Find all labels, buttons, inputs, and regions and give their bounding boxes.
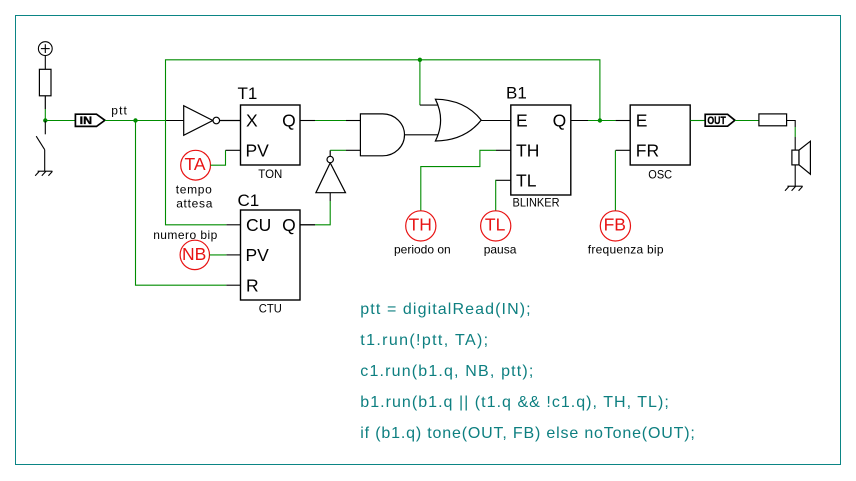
resistor R1 (pull-up) [39, 69, 51, 109]
wire NB to C1 PV [210, 254, 227, 256]
svg-text:FB: FB [604, 215, 626, 235]
wire ptt down to C1 R input [136, 121, 227, 286]
parameter TH [406, 211, 436, 241]
svg-text:numero bip: numero bip [153, 228, 218, 242]
speaker LS1 [792, 141, 811, 174]
svg-text:Q: Q [282, 215, 296, 235]
timer block T1 TON [226, 84, 316, 181]
wire AND output to OR input [404, 134, 443, 136]
svg-text:pausa: pausa [484, 243, 517, 257]
pin Q stub [300, 224, 315, 226]
svg-text:TH: TH [516, 140, 539, 160]
oscillator block OSC [616, 105, 691, 181]
node junction on top rail [418, 58, 422, 62]
node junction b1.q [598, 118, 602, 122]
pin Q stub [571, 120, 588, 122]
wire ptt: IN tunnel to inverter [105, 120, 166, 122]
ground (right, under speaker) [785, 186, 803, 191]
ground (left) [35, 171, 52, 176]
svg-text:TON: TON [258, 169, 282, 181]
svg-text:ptt: ptt [111, 104, 128, 118]
svg-text:c1.run(b1.q, NB, ptt);: c1.run(b1.q, NB, ptt); [360, 363, 533, 380]
svg-text:ptt = digitalRead(IN);: ptt = digitalRead(IN); [360, 301, 530, 318]
svg-text:PV: PV [246, 245, 270, 265]
svg-text:periodo on: periodo on [394, 243, 451, 257]
svg-text:CTU: CTU [259, 304, 282, 316]
pin FR stub [616, 149, 631, 151]
svg-text:if (b1.q) tone(OUT, FB) else n: if (b1.q) tone(OUT, FB) else noTone(OUT)… [360, 425, 695, 442]
svg-text:CU: CU [246, 215, 271, 235]
svg-text:TH: TH [409, 215, 432, 235]
parameter FB [600, 211, 630, 241]
pin Q stub [300, 120, 315, 122]
svg-text:B1: B1 [506, 84, 527, 103]
wire junction to IN tunnel [45, 120, 75, 122]
wire resistor to node ptt [44, 109, 46, 121]
wire TL param to B1.TL [495, 180, 497, 211]
wire B1.Q to OSC.E [588, 120, 616, 122]
svg-text:Q: Q [553, 111, 567, 131]
svg-text:TA: TA [184, 154, 205, 174]
svg-text:OUT: OUT [707, 115, 726, 127]
svg-text:TL: TL [485, 215, 506, 235]
parameter NB [180, 240, 209, 269]
resistor R2 (series to speaker) [759, 114, 787, 126]
wire OUT tunnel to resistor R2 [735, 120, 759, 122]
svg-text:E: E [516, 111, 528, 131]
svg-text:Q: Q [282, 111, 296, 131]
svg-text:OSC: OSC [648, 169, 672, 181]
pin TH stub [496, 149, 511, 151]
wire T1.Q to AND input [315, 120, 346, 122]
pin TL stub [496, 179, 511, 181]
input tunnel IN [75, 114, 105, 127]
svg-text:b1.run(b1.q || (t1.q && !c1.q): b1.run(b1.q || (t1.q && !c1.q), TH, TL); [360, 394, 669, 411]
wire rail to OR gate input [419, 60, 421, 105]
OR gate U4 [435, 99, 481, 141]
inverter U2 (NOT gate on c1.q, pointing up) [316, 150, 346, 192]
svg-text:frequenza bip: frequenza bip [588, 243, 664, 257]
svg-text:PV: PV [246, 140, 270, 160]
svg-text:TL: TL [516, 170, 537, 190]
wire OR output to B1.E [481, 120, 511, 122]
node junction at switch/resistor [43, 118, 47, 122]
pin CU stub [226, 224, 240, 226]
svg-text:T1: T1 [238, 84, 258, 103]
svg-text:tempo: tempo [176, 183, 213, 197]
pin PV stub [226, 149, 241, 151]
wire OSC out to OUT tunnel [690, 120, 705, 122]
svg-text:BLINKER: BLINKER [513, 198, 560, 210]
svg-text:NB: NB [182, 244, 206, 264]
wire C1.Q to inverter U2 [300, 224, 315, 226]
wire TA to T1 PV [211, 150, 226, 165]
parameter TL [481, 211, 511, 241]
svg-text:attesa: attesa [176, 197, 213, 211]
output tunnel OUT [705, 114, 735, 127]
switch S1 (push-to-talk) [36, 121, 45, 172]
pin PV stub [226, 254, 240, 256]
wire b1.q feedback rail [166, 60, 600, 225]
inverter U1 (NOT gate on ptt) [184, 106, 241, 136]
wire U2 out to AND input [330, 149, 346, 151]
svg-text:IN: IN [80, 115, 92, 127]
wire speaker to ground [794, 165, 796, 186]
svg-text:E: E [636, 111, 648, 131]
counter block C1 CTU [226, 191, 315, 316]
wire TH param to B1.TH [421, 150, 496, 211]
svg-text:C1: C1 [238, 191, 260, 210]
wire FB param to OSC.FR [614, 150, 616, 211]
wire R2 to speaker [787, 121, 796, 128]
parameter TA [181, 150, 211, 180]
node junction ptt [133, 118, 137, 122]
supply VCC symbol [38, 42, 52, 70]
svg-text:t1.run(!ptt, TA);: t1.run(!ptt, TA); [360, 332, 488, 349]
svg-text:R: R [246, 275, 259, 295]
AND gate U3 [360, 114, 404, 156]
blinker block B1 [496, 84, 588, 210]
svg-text:FR: FR [636, 140, 659, 160]
svg-text:X: X [246, 111, 258, 131]
